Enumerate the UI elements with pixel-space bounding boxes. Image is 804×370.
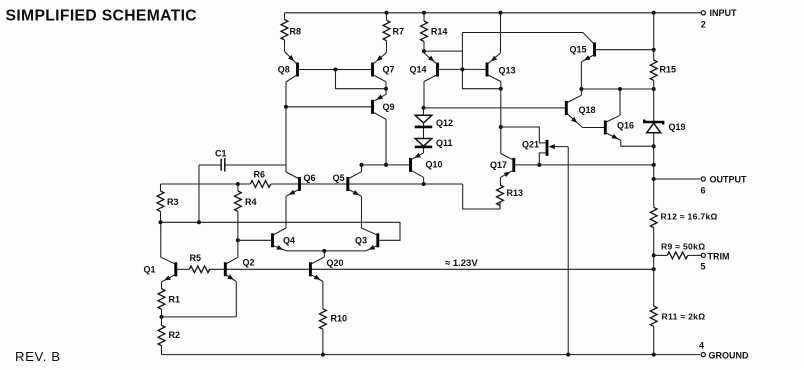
node: 1.23V line rail junction	[652, 267, 656, 271]
wire: right rail Q16 node down to ground	[653, 146, 655, 354]
wire: Q11 to Q12	[423, 127, 425, 138]
wire: Q14 collector down to Q12	[423, 82, 425, 108]
svg-text:R10: R10	[331, 313, 348, 323]
resistor R6	[250, 170, 270, 188]
node: Q8/Q7 base junction	[334, 68, 338, 72]
svg-text:R2: R2	[169, 330, 181, 340]
transistor Q10	[411, 153, 443, 178]
wire: node line to R15 bottom	[581, 88, 653, 90]
svg-text:GROUND: GROUND	[709, 350, 749, 360]
node: Q15 base / R15 junction	[652, 48, 656, 52]
net label 1.23V	[445, 258, 478, 269]
transistor Q15	[570, 33, 595, 62]
svg-text:R5: R5	[190, 253, 202, 263]
svg-text:R11 ≈ 2kΩ: R11 ≈ 2kΩ	[662, 311, 706, 321]
transistor Q21	[501, 127, 568, 165]
resistor R1	[158, 289, 180, 317]
capacitor C1	[199, 148, 286, 171]
transistor Q20	[310, 257, 343, 282]
node: Q14 collector / Q18 base junction	[422, 106, 426, 110]
node: Q9 base junction on Q8 collector line	[284, 105, 288, 109]
svg-text:REV. B: REV. B	[15, 349, 61, 364]
transistor Q18	[566, 95, 595, 127]
title: SIMPLIFIED SCHEMATIC	[6, 8, 197, 25]
svg-text:Q2: Q2	[243, 258, 255, 268]
node: R3 bottom junction	[159, 220, 163, 224]
transistor Q4	[238, 228, 295, 251]
node: R4 bottom / Q2 collector / Q4 base junction	[236, 238, 240, 242]
diode-connected transistor Q11	[415, 138, 453, 148]
wire: C1 left leg down to R3 line	[198, 165, 200, 222]
svg-text:Q1: Q1	[144, 264, 156, 274]
svg-text:R15: R15	[660, 65, 677, 75]
wire: Q9 emitter to Q7 collector	[385, 89, 387, 95]
svg-text:R9 ≈ 50kΩ: R9 ≈ 50kΩ	[661, 242, 705, 252]
node: R1/R2 junction	[160, 315, 164, 319]
svg-text:R7: R7	[393, 26, 405, 36]
svg-text:Q7: Q7	[383, 65, 395, 75]
transistor Q6	[286, 172, 316, 196]
wire: R3 bottom line to Q3 base	[161, 222, 401, 240]
svg-text:Q15: Q15	[570, 45, 587, 55]
wire: Q14 base to Q13 base	[438, 68, 488, 70]
resistor R11	[650, 306, 705, 326]
wire: Q6/Q5 base line from R3 node	[161, 183, 251, 185]
transistor Q1	[144, 257, 176, 282]
svg-text:2: 2	[701, 19, 706, 29]
transistor Q14	[409, 53, 437, 82]
svg-text:R4: R4	[245, 197, 257, 207]
wire: Q21 gate down to ground rail	[567, 147, 569, 355]
wire: Q10 emitter to Q11	[423, 147, 425, 153]
svg-text:R14: R14	[431, 26, 448, 36]
node: Q9 collector junction	[384, 163, 388, 167]
node: Q14/Q13 base junction	[460, 67, 464, 71]
node: R14 top junction	[422, 11, 426, 15]
svg-text:Q17: Q17	[490, 160, 507, 170]
transistor Q17	[490, 154, 514, 178]
resistor R14	[421, 13, 448, 51]
wire: Q10 collector to base line	[423, 177, 425, 184]
node: R11 ground junction	[652, 353, 656, 357]
wire: Q20 emitter to R10	[322, 282, 324, 309]
svg-text:R12 ≈ 16.7kΩ: R12 ≈ 16.7kΩ	[661, 212, 718, 222]
svg-text:TRIM: TRIM	[708, 252, 730, 262]
svg-text:4: 4	[699, 340, 704, 350]
wire: Q18 collector to node	[580, 89, 582, 95]
svg-text:Q20: Q20	[327, 258, 344, 268]
svg-text:C1: C1	[215, 148, 227, 158]
node: Q5 collector junction	[360, 163, 364, 167]
revision label REV. B	[15, 349, 61, 364]
wire: Q2 collector up to R4 node	[237, 240, 239, 257]
wire: Q7 collector to node	[385, 82, 387, 89]
transistor Q2	[225, 257, 254, 281]
wire: R1/R2 node to Q2 emitter	[162, 282, 237, 317]
svg-text:INPUT: INPUT	[710, 8, 738, 18]
node: R4 top-line junction	[236, 182, 240, 186]
node: R10 ground junction	[321, 353, 325, 357]
svg-text:R1: R1	[169, 294, 181, 304]
resistor R7	[383, 13, 404, 53]
svg-text:OUTPUT: OUTPUT	[710, 174, 748, 184]
node: Q16 emitter rail junction	[652, 144, 656, 148]
node: Q7 collector / Q9 emitter junction	[384, 87, 388, 91]
wire: Q1 collector up to R3 line	[160, 222, 162, 257]
zener diode Q19	[644, 89, 685, 146]
node: Q21 gate ground junction	[566, 353, 570, 357]
diode-connected transistor Q12	[415, 115, 453, 128]
terminal OUTPUT pin 6	[652, 174, 747, 195]
wire: R14 node over to Q15 collector and Q14/Q13 bases	[424, 33, 583, 70]
wire: Q12 to Q14 collector node	[423, 108, 425, 116]
node: Q17 base / Q21 drain junction	[537, 163, 541, 167]
transistor Q5	[333, 172, 362, 197]
wire: Q9 collector down to Q10 base line	[385, 119, 387, 165]
wire: Q20 collector to emitter-line node	[323, 251, 325, 257]
wire: R6 to Q6/Q5 bases and on to step	[271, 183, 463, 185]
terminal TRIM pin 5	[700, 252, 729, 272]
node: Q15 emitter / Q18 collector junction	[579, 87, 583, 91]
wire: Q13 collector down to Q17 collector	[500, 82, 502, 154]
wire: Q18 emitter to Q16 base	[583, 127, 606, 129]
wire: Q15 base to right rail	[595, 49, 654, 51]
terminal INPUT pin 2	[701, 8, 737, 29]
node: Q21 source branch junction	[499, 125, 503, 129]
svg-text:R6: R6	[254, 170, 266, 180]
wire: Q5 collector line to Q10 base	[362, 164, 411, 166]
node: Q13 emitter rail junction	[499, 11, 503, 15]
node: C1 leg junction	[197, 220, 201, 224]
node: output line rail junction	[652, 163, 656, 167]
wire: Q13 emitter up to rail	[500, 13, 502, 53]
wire: top supply rail to INPUT	[285, 12, 701, 14]
resistor R10	[320, 309, 348, 355]
wire: Q13 diode-connection link	[462, 69, 500, 88]
svg-text:Q6: Q6	[304, 173, 316, 183]
node: Q16 collector junction	[618, 87, 622, 91]
wire: Q5 emitter down to Q3 collector	[361, 196, 363, 228]
wire: Q6 emitter down to Q4 collector	[285, 196, 287, 228]
wire: Q17 base line to right rail	[514, 164, 654, 166]
wire: ground rail	[162, 354, 701, 356]
wire: Q16 emitter to right rail	[621, 140, 654, 146]
resistor R4	[234, 184, 256, 240]
node: R15 bottom / Q19 cathode junction	[652, 87, 656, 91]
node: Q13 collector link junction	[499, 87, 503, 91]
wire: Q8 base to Q7 base	[298, 69, 373, 71]
wire: step down to R13 bottom	[463, 184, 500, 209]
svg-text:Q21: Q21	[522, 140, 539, 150]
svg-text:R13: R13	[507, 188, 524, 198]
wire: Q8 collector down to Q9 base / C1 / Q6 collector	[285, 82, 287, 172]
node: R7 top junction	[385, 11, 389, 15]
svg-text:6: 6	[700, 186, 705, 196]
wire: Q16 collector up to node line	[619, 89, 621, 115]
resistor R2	[158, 317, 180, 355]
svg-text:Q11: Q11	[436, 138, 453, 148]
transistor Q9	[373, 94, 395, 119]
transistor Q8	[278, 52, 298, 83]
node: Q20 collector junction	[322, 249, 326, 253]
svg-text:Q18: Q18	[579, 105, 596, 115]
node: Q10 collector junction	[422, 182, 426, 186]
wire: Q5 collector to Q10 base line	[361, 165, 363, 172]
transistor Q13	[487, 53, 516, 82]
svg-text:Q14: Q14	[409, 65, 426, 75]
svg-text:Q4: Q4	[283, 236, 295, 246]
svg-text:Q16: Q16	[617, 121, 634, 131]
transistor Q3	[355, 228, 378, 251]
svg-text:R3: R3	[167, 197, 179, 207]
wire: right rail from top to Q15 base	[653, 13, 655, 50]
svg-text:Q8: Q8	[278, 65, 290, 75]
resistor R13	[497, 185, 523, 209]
svg-text:Q5: Q5	[333, 173, 345, 183]
transistor Q16	[605, 115, 634, 140]
node: R14 bottom / Q14 emitter junction	[422, 49, 426, 53]
svg-text:Q12: Q12	[436, 118, 453, 128]
resistor R5	[189, 253, 209, 273]
resistor R8	[281, 13, 301, 52]
transistor Q7	[373, 53, 395, 82]
node: right rail top junction	[652, 11, 656, 15]
wire: Q4/Q3 emitter line	[287, 250, 367, 252]
svg-text:Q19: Q19	[669, 122, 686, 132]
svg-text:SIMPLIFIED SCHEMATIC: SIMPLIFIED SCHEMATIC	[6, 8, 197, 25]
resistor R9	[654, 242, 706, 259]
svg-text:R8: R8	[290, 26, 302, 36]
svg-text:Q10: Q10	[426, 159, 443, 169]
wire: Q14 collector node to Q18 base	[424, 107, 567, 109]
resistor R3	[157, 184, 178, 222]
svg-text:≈ 1.23V: ≈ 1.23V	[445, 258, 478, 269]
wire: Q17 emitter to R13	[500, 177, 502, 185]
resistor R15	[650, 50, 676, 89]
wire: Q9 base line	[286, 106, 373, 108]
wire: 1.23V node line from Q1 base to right rail	[176, 268, 654, 270]
wire: Q15 emitter down to Q18 collector	[580, 62, 582, 89]
svg-text:5: 5	[700, 261, 705, 271]
node: R12/R9 junction	[652, 253, 656, 257]
wire: Q7 diode-connection link	[336, 70, 387, 89]
resistor R12	[650, 207, 717, 227]
svg-text:Q9: Q9	[383, 102, 395, 112]
svg-text:Q13: Q13	[499, 66, 516, 76]
svg-text:Q3: Q3	[355, 236, 367, 246]
wire: Q1 emitter to R1	[161, 282, 163, 289]
terminal GROUND pin 4	[699, 340, 749, 360]
